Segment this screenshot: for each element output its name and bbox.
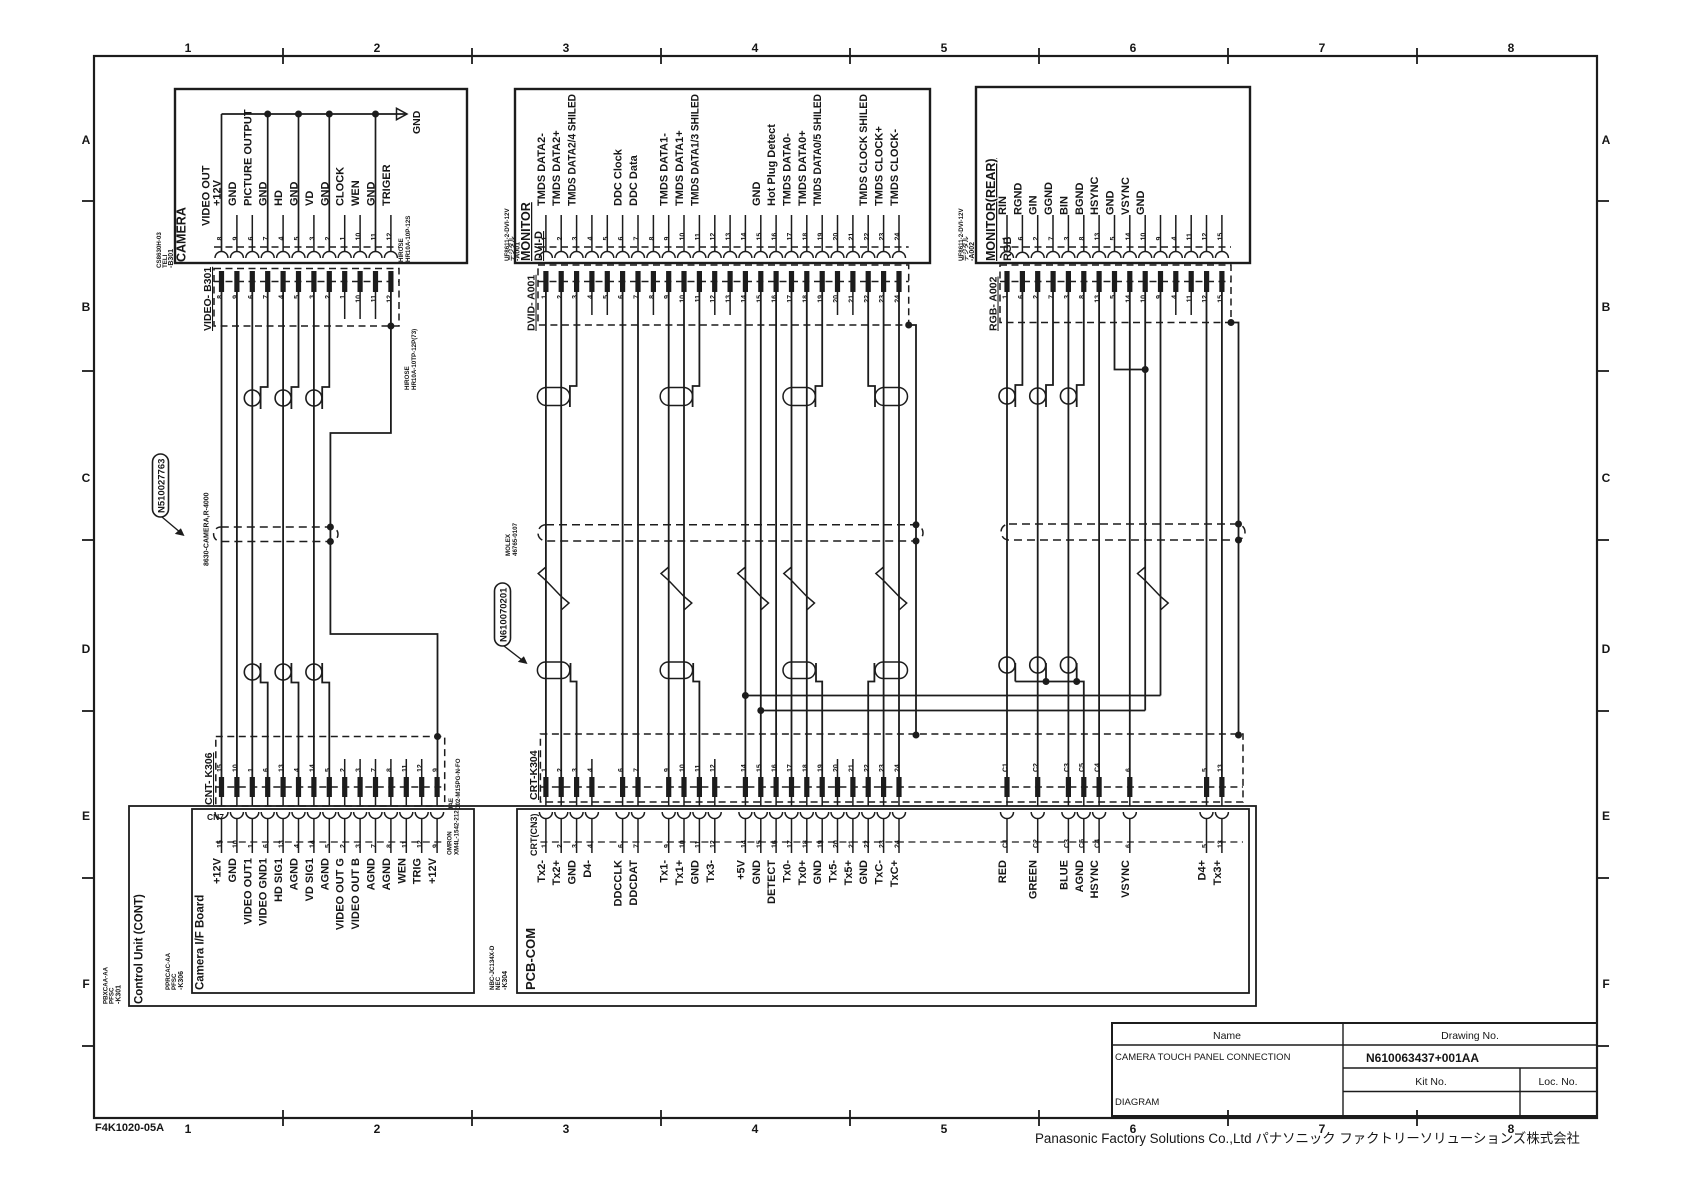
- junction RGB-A002 shield: [1228, 319, 1235, 326]
- twisted pair capsule TMDS DATA0 (lower): [783, 662, 815, 679]
- svg-text:7: 7: [1049, 295, 1056, 299]
- svg-text:7: 7: [634, 237, 641, 241]
- svg-text:10: 10: [680, 840, 687, 848]
- svg-text:3: 3: [309, 237, 316, 241]
- wire VIDEO-B301 pin8 to CNT-K306 pin15: [221, 292, 223, 777]
- monitor DVI-D pin 5: [606, 215, 608, 252]
- svg-text:Tx3-: Tx3-: [705, 860, 717, 883]
- stub DVID-A001 pin 12: [714, 292, 716, 315]
- svg-text:4: 4: [279, 237, 286, 241]
- svg-text:AGND: AGND: [381, 858, 393, 890]
- monitor DVI-D box A001: [515, 89, 930, 263]
- twisted pair capsule TMDS DATA2 (lower): [537, 662, 569, 679]
- ground symbol GND: [397, 108, 408, 119]
- wire VIDEO-B301 pin12 shield to CNT-K306 pin9: [330, 292, 437, 777]
- svg-text:BLUE: BLUE: [1058, 860, 1070, 890]
- CRT(CN3) pin 19 (GND): [821, 797, 823, 806]
- svg-text:GND: GND: [366, 182, 378, 207]
- CRT(CN3) mid dashed line: [540, 841, 1243, 843]
- svg-text:13: 13: [1095, 295, 1102, 303]
- svg-text:D02-M15PG-N-FO: D02-M15PG-N-FO: [455, 758, 462, 810]
- VIDEO-B301 pin 8: [219, 271, 224, 292]
- VIDEO-B301 pin 3: [311, 271, 316, 292]
- CRT(CN3) pin 24 (TxC+): [898, 797, 900, 806]
- wire camera GND pin 5 to bus + junction: [298, 114, 300, 252]
- svg-text:6: 6: [248, 237, 255, 241]
- camera pin 3 (VD): [313, 215, 315, 252]
- camera block B301 box: [175, 89, 467, 263]
- svg-text:4: 4: [294, 844, 301, 848]
- RGB-A002 pin 15: [1219, 271, 1224, 292]
- svg-text:9: 9: [232, 237, 239, 241]
- VIDEO-B301 pin 9: [234, 271, 239, 292]
- svg-text:11: 11: [695, 764, 702, 772]
- monitor DVI-D pin 12: [714, 215, 716, 252]
- svg-text:11: 11: [371, 233, 378, 241]
- svg-text:5: 5: [294, 237, 301, 241]
- twisted pair sleeve on BIN (upper): [1060, 388, 1076, 404]
- title block: [1112, 1023, 1597, 1116]
- RGB-A002 pin 12: [1204, 271, 1209, 292]
- svg-text:12: 12: [710, 233, 717, 241]
- CRT(CN3) pin 13 (Tx3+): [1221, 797, 1223, 806]
- svg-text:2: 2: [1033, 295, 1040, 299]
- svg-text:3: 3: [356, 768, 363, 772]
- junction CRT-K304 shield: [913, 732, 920, 739]
- svg-text:GND: GND: [812, 860, 824, 885]
- wire DVID-A001 pin18 Tx0+: [806, 292, 808, 777]
- DVID-A001 pin 3: [574, 271, 579, 292]
- svg-text:VIDEO GND1: VIDEO GND1: [258, 858, 270, 926]
- VIDEO-B301 pin 5: [296, 271, 301, 292]
- svg-text:14: 14: [741, 764, 748, 772]
- svg-text:23: 23: [879, 295, 886, 303]
- twisted pair shield tail pin2 (upper): [322, 292, 329, 409]
- svg-text:AGND: AGND: [319, 858, 331, 890]
- CRT(CN3) pin 1 (Tx2-): [545, 797, 547, 806]
- CRT(CN3) pin 18 (Tx0+): [806, 797, 808, 806]
- monitor DVI-D pin 10 (TMDS DATA1+): [683, 215, 685, 252]
- svg-text:Tx2+: Tx2+: [551, 860, 563, 885]
- monitor rear RGB pin 2 (GIN): [1037, 215, 1039, 252]
- wire RGB pin12 to CRT-K304 pin5 D4+: [1206, 292, 1208, 777]
- svg-text:1: 1: [248, 844, 255, 848]
- svg-text:VIDEO OUT1: VIDEO OUT1: [242, 858, 254, 925]
- svg-text:D: D: [82, 642, 91, 656]
- svg-text:VIDEO- B301: VIDEO- B301: [202, 267, 214, 331]
- monitor DVI-D pin 8: [652, 215, 654, 252]
- svg-text:MONITOR: MONITOR: [519, 202, 533, 261]
- wire RGB pin9 to DVI +5V junction: [1160, 292, 1162, 696]
- svg-text:GND: GND: [227, 858, 239, 883]
- stub RGB pin11: [1190, 292, 1192, 315]
- monitor DVI-D pin 9 (TMDS DATA1-): [668, 215, 670, 252]
- svg-text:N610063437+001AA: N610063437+001AA: [1366, 1051, 1479, 1065]
- svg-text:5: 5: [603, 295, 610, 299]
- svg-text:C5: C5: [1079, 763, 1086, 772]
- wire camera pin8 to GND bus: [221, 114, 223, 252]
- camera pin dashed line: [214, 246, 399, 248]
- svg-text:16: 16: [772, 840, 779, 848]
- svg-text:TxC+: TxC+: [889, 860, 901, 887]
- CN7 pin 11 (WEN): [405, 797, 407, 806]
- svg-text:15: 15: [756, 295, 763, 303]
- svg-text:6: 6: [1125, 844, 1132, 848]
- svg-text:-K304: -K304: [502, 971, 509, 990]
- cable marker RGB: [1001, 524, 1245, 540]
- svg-text:TMDS DATA0+: TMDS DATA0+: [797, 130, 809, 206]
- svg-text:20: 20: [833, 233, 840, 241]
- svg-text:Loc. No.: Loc. No.: [1538, 1076, 1577, 1088]
- svg-text:VD SIG1: VD SIG1: [304, 858, 316, 901]
- svg-text:15: 15: [756, 233, 763, 241]
- RGB-A002 pin 14: [1127, 271, 1132, 292]
- svg-text:13: 13: [1217, 764, 1224, 772]
- twisted pair shield tail TMDS DATA0 to CRT-K304 (lower): [816, 663, 822, 777]
- svg-text:C3: C3: [1064, 839, 1071, 848]
- wire RGB pin2 GIN to CRT(CN3) C2: [1037, 292, 1039, 777]
- svg-text:12: 12: [710, 295, 717, 303]
- svg-text:19: 19: [818, 233, 825, 241]
- RGB-A002 pin 11: [1189, 271, 1194, 292]
- svg-text:-A002: -A002: [969, 242, 976, 261]
- CN7 pin 6 (VIDEO GND1): [267, 797, 269, 806]
- monitor rear RGB pin 1 (RIN): [1006, 215, 1008, 252]
- svg-text:9: 9: [433, 844, 440, 848]
- wire DVID-A001 pin17 Tx0-: [791, 292, 793, 777]
- svg-text:10: 10: [356, 295, 363, 303]
- twisted pair shield tail to CNT-K306 pin4 (lower): [291, 663, 298, 777]
- svg-text:15: 15: [217, 840, 224, 848]
- svg-text:16: 16: [772, 764, 779, 772]
- svg-text:PCB-COM: PCB-COM: [523, 928, 538, 990]
- wire DVID-A001 pin1 Tx2-: [545, 292, 547, 777]
- svg-text:Tx5+: Tx5+: [843, 860, 855, 885]
- svg-text:TMDS CLOCK SHILED: TMDS CLOCK SHILED: [858, 94, 870, 206]
- junction RGB marker top: [1235, 521, 1242, 528]
- monitor rear RGB pin 14 (VSYNC): [1129, 215, 1131, 252]
- svg-text:CLOCK: CLOCK: [335, 167, 347, 206]
- RGB pin dashed line: [1000, 246, 1231, 248]
- svg-text:TRIGER: TRIGER: [381, 164, 393, 206]
- RGB-A002 pin 5: [1112, 271, 1117, 292]
- svg-text:6: 6: [618, 237, 625, 241]
- svg-text:8: 8: [217, 295, 224, 299]
- DVID-A001 pin 1: [543, 271, 548, 292]
- VIDEO-B301 pin 10: [358, 271, 363, 292]
- svg-text:-K301: -K301: [116, 985, 123, 1004]
- junction DVI marker bottom: [913, 538, 920, 545]
- svg-text:C3: C3: [1064, 763, 1071, 772]
- svg-text:11: 11: [1187, 233, 1194, 241]
- svg-text:2: 2: [340, 768, 347, 772]
- svg-text:3: 3: [572, 844, 579, 848]
- RGB-A002 pin mid dashed line: [1000, 281, 1231, 283]
- wire DVID-A001 pin24 TxC-: [898, 292, 900, 777]
- svg-text:5: 5: [603, 237, 610, 241]
- svg-text:PFSC: PFSC: [171, 973, 178, 990]
- svg-text:13: 13: [279, 764, 286, 772]
- CRT(CN3) pin 9 (Tx1-): [668, 797, 670, 806]
- svg-text:8: 8: [386, 768, 393, 772]
- svg-text:15: 15: [756, 840, 763, 848]
- Control Unit (CONT) box: [129, 806, 1256, 1006]
- monitor rear RGB pin 13 (HSYNC): [1098, 215, 1100, 252]
- CRT(CN3) pin C3 (BLUE): [1067, 797, 1069, 806]
- svg-text:N610070201: N610070201: [499, 587, 510, 642]
- junction RGB GND pins 5/10: [1142, 366, 1149, 373]
- svg-text:3: 3: [572, 295, 579, 299]
- svg-text:10: 10: [680, 233, 687, 241]
- wire RGB pin5 GND join pin10: [1115, 292, 1146, 370]
- wire RGB pin14 VSYNC to CRT(CN3) 6: [1129, 292, 1131, 777]
- twisted pair capsule TMDS DATA0 pair (upper): [783, 388, 815, 406]
- svg-text:CAMERA: CAMERA: [175, 207, 189, 262]
- svg-text:A: A: [82, 133, 91, 147]
- svg-text:24: 24: [895, 840, 902, 848]
- svg-text:PICTURE OUTPUT: PICTURE OUTPUT: [242, 109, 254, 206]
- DVID-A001 pin 17: [789, 271, 794, 292]
- svg-text:RIN: RIN: [997, 196, 1009, 215]
- CRT(CN3) pin 20 (Tx5-): [837, 797, 839, 806]
- svg-text:15: 15: [1217, 295, 1224, 303]
- svg-text:9: 9: [664, 844, 671, 848]
- svg-text:20: 20: [833, 764, 840, 772]
- part balloon N510027763: [153, 454, 169, 517]
- DVID-A001 pin 18: [804, 271, 809, 292]
- wire DVID-A001 pin23 TxC+: [883, 292, 885, 777]
- svg-text:RGB- A002: RGB- A002: [988, 276, 1000, 331]
- svg-text:5: 5: [1202, 768, 1209, 772]
- svg-text:A: A: [1602, 133, 1611, 147]
- monitor rear RGB pin 12: [1206, 215, 1208, 252]
- svg-text:AGND: AGND: [366, 858, 378, 890]
- twisted pair shield tail DVI pin3 (upper): [570, 292, 577, 407]
- svg-text:17: 17: [787, 840, 794, 848]
- svg-text:GND: GND: [258, 182, 270, 207]
- svg-text:DDCCLK: DDCCLK: [613, 860, 625, 906]
- svg-text:12: 12: [417, 764, 424, 772]
- svg-text:3: 3: [572, 768, 579, 772]
- monitor rear RGB pin 3 (BIN): [1067, 215, 1069, 252]
- twisted pair shield tail TMDS CLOCK to CRT-K304 (lower): [868, 663, 874, 777]
- svg-text:12: 12: [386, 295, 393, 303]
- wire DVID-A001 pin9 Tx1-: [668, 292, 670, 777]
- svg-text:Tx1-: Tx1-: [659, 860, 671, 883]
- monitor DVI-D pin 20: [837, 215, 839, 252]
- CN7 pin 9 (+12V): [436, 797, 438, 806]
- svg-text:12: 12: [417, 840, 424, 848]
- DVID-A001 pin 10: [681, 271, 686, 292]
- svg-text:6: 6: [263, 844, 270, 848]
- monitor rear RGB pin 7 (GGND): [1052, 215, 1054, 252]
- RGB-A002 pin 9: [1158, 271, 1163, 292]
- svg-text:+5V: +5V: [735, 859, 747, 880]
- svg-text:1: 1: [1003, 237, 1010, 241]
- twisted pair shield tail pin5 (upper): [291, 292, 298, 409]
- svg-text:TMDS DATA1/3 SHILED: TMDS DATA1/3 SHILED: [689, 94, 701, 206]
- svg-text:GND: GND: [751, 860, 763, 885]
- twisted pair shield tail to CNT-K306 pin6 (lower): [261, 663, 268, 777]
- CRT(CN3) pin 16 (DETECT): [775, 797, 777, 806]
- svg-text:6: 6: [618, 844, 625, 848]
- DVID-A001 pin 2: [559, 271, 564, 292]
- svg-text:20: 20: [833, 295, 840, 303]
- CN7 pin 7 (AGND): [375, 797, 377, 806]
- svg-text:3: 3: [356, 844, 363, 848]
- svg-text:TMDS CLOCK-: TMDS CLOCK-: [889, 129, 901, 206]
- svg-text:20: 20: [833, 840, 840, 848]
- svg-text:VIDEO OUT B: VIDEO OUT B: [350, 858, 362, 930]
- monitor DVI-D pin 2 (TMDS DATA2+): [560, 215, 562, 252]
- svg-text:2: 2: [374, 1122, 381, 1136]
- wire RGB pin1 RIN to CRT(CN3) C1: [1006, 292, 1008, 777]
- svg-text:17: 17: [787, 295, 794, 303]
- camera pin 1 (CLOCK): [344, 215, 346, 252]
- svg-text:11: 11: [1187, 295, 1194, 303]
- svg-text:GND: GND: [751, 182, 763, 207]
- svg-text:DDC Clock: DDC Clock: [613, 148, 625, 206]
- svg-text:10: 10: [1141, 295, 1148, 303]
- twisted pair sleeve on pin3 wire (lower): [306, 664, 322, 680]
- CRT(CN3) pin C1 (RED): [1006, 797, 1008, 806]
- CRT(CN3) pin C4 (HSYNC): [1098, 797, 1100, 806]
- connector DVID-A001 dashed box: [538, 265, 909, 325]
- svg-text:12: 12: [710, 764, 717, 772]
- svg-text:VIDEO OUT G: VIDEO OUT G: [335, 858, 347, 930]
- monitor DVI-D pin 11 (TMDS DATA1/3 SHILED): [698, 215, 700, 252]
- monitor DVI-D pin 21: [852, 215, 854, 252]
- svg-text:1: 1: [541, 768, 548, 772]
- svg-text:C: C: [82, 471, 91, 485]
- monitor rear RGB pin 6 (RGND): [1021, 215, 1023, 252]
- svg-text:MOLEX: MOLEX: [505, 533, 512, 556]
- stub DVID-A001 pin 13: [729, 292, 731, 315]
- wire DVID-A001 pin14 +5V: [744, 292, 746, 777]
- twisted pair shield tail DVI pin22 (upper): [868, 292, 875, 407]
- svg-text:C4: C4: [1095, 839, 1102, 848]
- svg-text:2: 2: [557, 237, 564, 241]
- svg-text:D4+: D4+: [1197, 860, 1209, 881]
- svg-text:GND: GND: [227, 182, 239, 207]
- svg-text:Kit No.: Kit No.: [1415, 1076, 1447, 1088]
- stub RGB pin4: [1175, 292, 1177, 315]
- svg-text:16: 16: [772, 295, 779, 303]
- svg-text:Tx1+: Tx1+: [674, 860, 686, 885]
- svg-text:13: 13: [1217, 840, 1224, 848]
- svg-text:HIROSE: HIROSE: [404, 366, 411, 390]
- svg-text:23: 23: [879, 840, 886, 848]
- svg-text:11: 11: [695, 295, 702, 303]
- svg-text:3: 3: [1064, 295, 1071, 299]
- svg-text:3: 3: [309, 295, 316, 299]
- svg-text:21: 21: [848, 764, 855, 772]
- wire VIDEO-B301 pin4 to CNT-K306 pin13: [282, 292, 284, 777]
- svg-text:F: F: [82, 977, 89, 991]
- PCB-COM box: [517, 809, 1249, 993]
- wire RGB pin15 to CRT-K304 pin13 Tx3+: [1221, 292, 1223, 777]
- monitor rear RGB pin 4: [1175, 215, 1177, 252]
- svg-text:OMRON: OMRON: [447, 831, 454, 855]
- twisted pair shield tail GGND (upper): [1046, 292, 1053, 407]
- svg-text:C2: C2: [1033, 839, 1040, 848]
- RGB-A002 pin 3: [1066, 271, 1071, 292]
- monitor DVI-D pin 17 (TMDS DATA0-): [791, 215, 793, 252]
- svg-text:22: 22: [864, 764, 871, 772]
- svg-text:6: 6: [1018, 237, 1025, 241]
- wire DVID-A001 pin16 Hot Plug Detect wire to CRT-K304 pin16: [775, 292, 777, 777]
- svg-text:8: 8: [649, 295, 656, 299]
- twist crossover symbol TMDS DATA1: [661, 567, 692, 610]
- svg-text:C: C: [1602, 471, 1611, 485]
- CN7 pin 12 (TRIG): [421, 797, 423, 806]
- RGB-A002 pin 4: [1173, 271, 1178, 292]
- svg-text:TxC-: TxC-: [874, 860, 886, 885]
- svg-text:14: 14: [741, 233, 748, 241]
- DVID-A001 pin 21: [850, 271, 855, 292]
- DVID-A001 pin 11: [697, 271, 702, 292]
- svg-text:1: 1: [1003, 295, 1010, 299]
- svg-text:VSYNC: VSYNC: [1120, 177, 1132, 215]
- svg-text:8: 8: [1508, 41, 1515, 55]
- svg-text:TMDS DATA2+: TMDS DATA2+: [551, 130, 563, 206]
- DVID-A001 pin 23: [881, 271, 886, 292]
- junction DVI marker top: [913, 521, 920, 528]
- svg-text:5: 5: [1202, 844, 1209, 848]
- VIDEO-B301 pin 4: [281, 271, 286, 292]
- svg-text:3: 3: [572, 237, 579, 241]
- svg-text:C1: C1: [1003, 839, 1010, 848]
- svg-text:24: 24: [895, 764, 902, 772]
- svg-text:2: 2: [557, 768, 564, 772]
- svg-text:23: 23: [879, 233, 886, 241]
- twisted pair sleeve on BLUE (lower): [1060, 657, 1076, 673]
- twisted pair capsule TMDS DATA1 pair (upper): [660, 388, 692, 406]
- svg-text:TMDS DATA2-: TMDS DATA2-: [536, 133, 548, 206]
- svg-text:7: 7: [1049, 237, 1056, 241]
- svg-text:13: 13: [726, 233, 733, 241]
- svg-text:N510027763: N510027763: [157, 459, 168, 513]
- VIDEO-B301 pin 1: [342, 271, 347, 292]
- wire RGB-A002 shield to CRT-K304: [1231, 323, 1239, 736]
- svg-text:CNT- K306: CNT- K306: [203, 752, 215, 805]
- svg-text:NEC: NEC: [495, 976, 502, 990]
- svg-text:21: 21: [848, 840, 855, 848]
- twisted pair sleeve on pin3 wire (upper): [306, 390, 322, 406]
- svg-text:4: 4: [587, 768, 594, 772]
- svg-text:CRT-K304: CRT-K304: [528, 750, 540, 800]
- svg-text:Camera I/F Board: Camera I/F Board: [195, 895, 207, 990]
- svg-text:HR10A-10P-12S: HR10A-10P-12S: [405, 216, 412, 262]
- wire camera GND pin 7 to bus + junction: [267, 114, 269, 252]
- svg-text:7: 7: [634, 295, 641, 299]
- svg-text:CAMERA TOUCH PANEL CONNECTION: CAMERA TOUCH PANEL CONNECTION: [1115, 1052, 1291, 1063]
- twisted pair sleeve on pin4 wire (lower): [275, 664, 291, 680]
- svg-text:5: 5: [1110, 237, 1117, 241]
- svg-text:12: 12: [1202, 233, 1209, 241]
- monitor rear box A002: [976, 87, 1250, 263]
- svg-text:14: 14: [741, 840, 748, 848]
- svg-text:Name: Name: [1213, 1030, 1241, 1042]
- junction DVID-A001 shield: [905, 322, 912, 329]
- svg-text:Tx0+: Tx0+: [797, 860, 809, 885]
- svg-text:D4-: D4-: [582, 860, 594, 878]
- CN7 pin 2 (VIDEO OUT G): [344, 797, 346, 806]
- junction shield tail GREEN: [1043, 678, 1050, 685]
- svg-text:6: 6: [1125, 768, 1132, 772]
- svg-text:15: 15: [217, 764, 224, 772]
- twisted pair shield tail RGND (upper): [1015, 292, 1022, 407]
